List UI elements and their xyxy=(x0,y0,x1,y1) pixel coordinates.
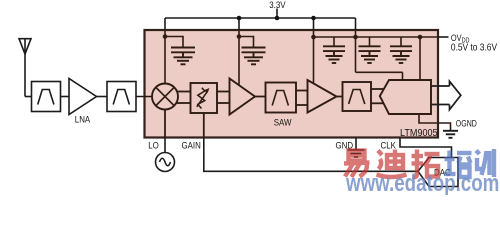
svg-text:OGND: OGND xyxy=(456,119,477,129)
svg-text:SAW: SAW xyxy=(274,117,292,128)
svg-text:www.edatop.com: www.edatop.com xyxy=(345,169,499,195)
svg-text:3.3V: 3.3V xyxy=(269,0,286,10)
svg-text:CLK: CLK xyxy=(381,140,397,151)
svg-text:0.5V to 3.6V: 0.5V to 3.6V xyxy=(451,42,498,53)
svg-text:LNA: LNA xyxy=(75,114,91,125)
svg-text:LO: LO xyxy=(148,140,159,151)
svg-text:GAIN: GAIN xyxy=(182,140,201,151)
svg-text:LTM9005: LTM9005 xyxy=(400,127,438,139)
